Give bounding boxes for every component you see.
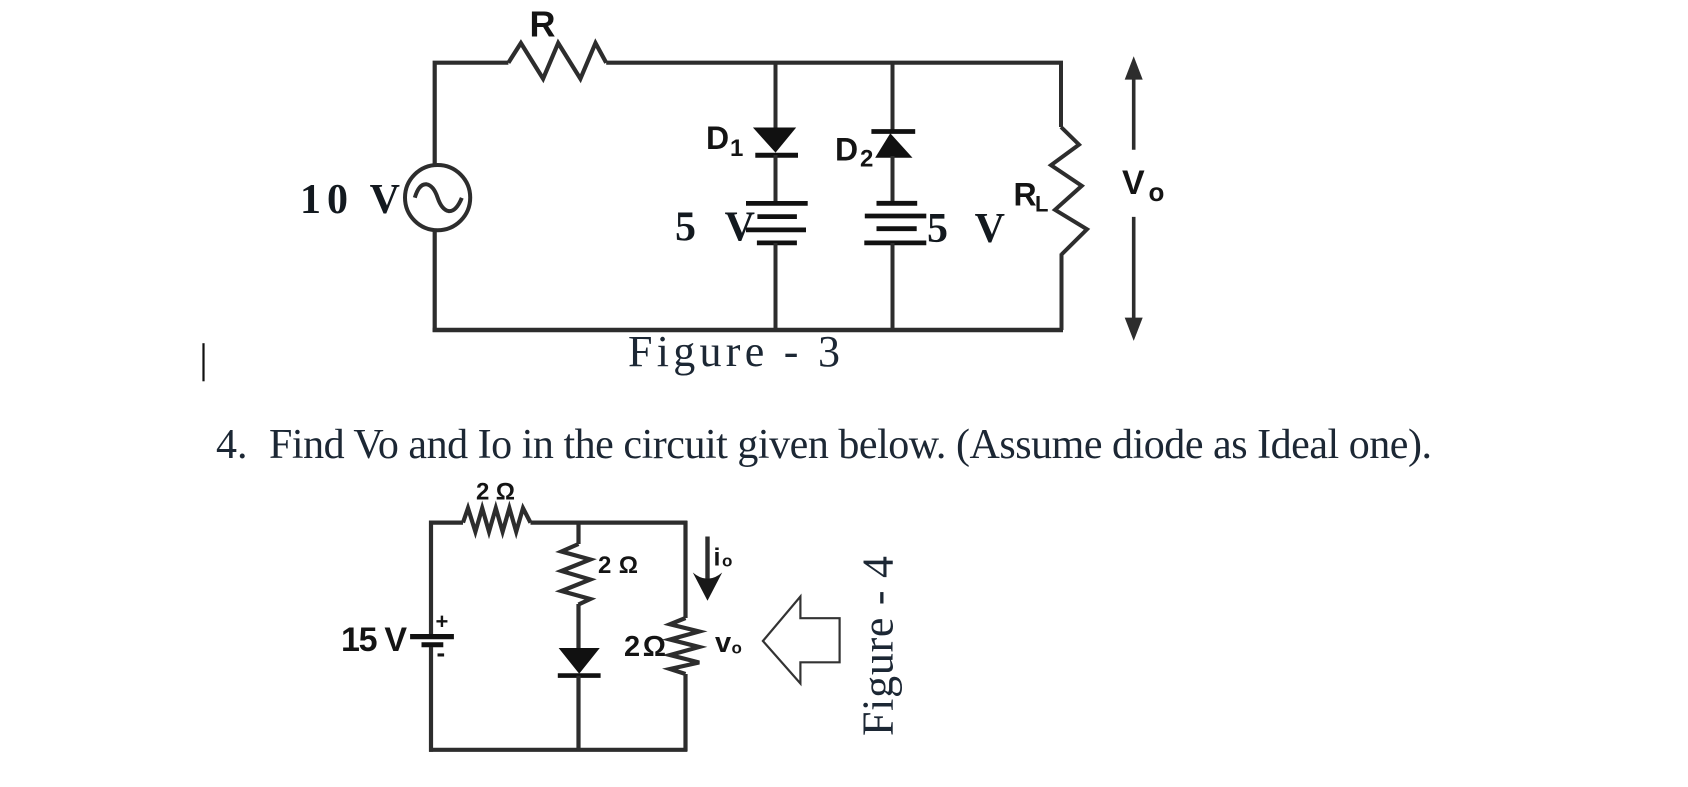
wire: Fig3 left vertical upper segment and top wire left segment [435, 63, 509, 167]
wire: Fig4 top wire right segment [531, 520, 688, 524]
svg-text:10 V: 10 V [300, 177, 400, 223]
resistor R2 2ohm (middle) [561, 544, 590, 605]
svg-text:2Ω: 2Ω [624, 631, 666, 663]
wire: B1 to bottom wire [774, 243, 778, 330]
svg-text:R: R [1014, 177, 1037, 213]
wire: RL to bottom wire [1060, 254, 1064, 331]
svg-text:v: v [715, 627, 731, 659]
wire: RL branch upper segment [1059, 62, 1063, 127]
svg-text:L: L [1035, 192, 1048, 217]
svg-text:R: R [530, 4, 556, 45]
wire: D1 cathode to battery B1 [774, 155, 778, 205]
svg-text:o: o [722, 551, 732, 570]
svg-text:15 V: 15 V [341, 621, 407, 659]
svg-text:2Ω: 2Ω [476, 479, 515, 506]
svg-text:o: o [1149, 177, 1165, 207]
wire: D2 anode to battery B2 [891, 156, 895, 204]
wire: Fig3 top wire right segment [606, 61, 1063, 65]
annotation arrow io (pointing down) [693, 537, 722, 601]
battery B2 5V (short, long, short, long plates) [864, 203, 926, 243]
wire: middle branch lower segment [576, 676, 580, 751]
svg-text:4.: 4. [216, 422, 248, 468]
wire: Fig4 left vertical upper segment and top wire left segment [431, 523, 463, 634]
svg-text:Figure - 4: Figure - 4 [854, 556, 903, 736]
wire: middle branch between resistor and diode D3 [576, 604, 580, 650]
resistor RL [1051, 127, 1087, 255]
diode D2 [871, 132, 915, 158]
svg-text:Figure - 3: Figure - 3 [628, 327, 840, 376]
wire: middle branch upper segment [576, 521, 580, 544]
svg-text:2Ω: 2Ω [598, 552, 638, 579]
wire: Fig3 bottom wire [433, 328, 1063, 332]
battery B1 5V (long, short, long, short plates) [746, 203, 808, 243]
diode D3 [558, 649, 601, 676]
svg-text:5 V: 5 V [927, 206, 1005, 252]
svg-text:o: o [732, 639, 742, 658]
svg-text:1: 1 [730, 135, 743, 162]
svg-text:V: V [1122, 164, 1145, 202]
wire: Fig4 bottom wire [429, 748, 687, 752]
resistor R [508, 43, 606, 79]
wire: D2 branch upper segment [891, 62, 895, 131]
svg-text:D: D [706, 120, 729, 156]
svg-text:D: D [835, 131, 858, 167]
AC source V1 (10 V) [405, 165, 470, 230]
svg-text:Find Vo and Io in the circuit: Find Vo and Io in the circuit given belo… [269, 422, 1432, 468]
wire: B2 to bottom wire [891, 243, 895, 330]
wire: Fig3 left vertical lower segment [433, 229, 437, 333]
wire: right branch upper segment [683, 521, 687, 618]
svg-text:+: + [436, 609, 449, 634]
resistor R1 2ohm (top) [463, 508, 531, 532]
wire: D1 branch upper segment [774, 62, 778, 130]
battery B3 15V plates [410, 637, 454, 645]
text cursor bar [202, 343, 204, 381]
wire: Fig4 left vertical lower segment [429, 647, 433, 752]
svg-text:2: 2 [860, 146, 873, 173]
annotation arrow Vo upper (pointing up) [1125, 56, 1143, 150]
svg-text:i: i [714, 544, 721, 572]
svg-text:5 V: 5 V [675, 205, 755, 251]
diode D1 [755, 128, 798, 155]
annotation arrow Vo lower (pointing down) [1125, 217, 1143, 341]
resistor R3 2ohm (right) [670, 618, 699, 674]
svg-text:-: - [437, 638, 446, 668]
block arrow pointing left (callout to Figure 4) [763, 597, 840, 684]
wire: right branch lower segment [683, 674, 687, 751]
